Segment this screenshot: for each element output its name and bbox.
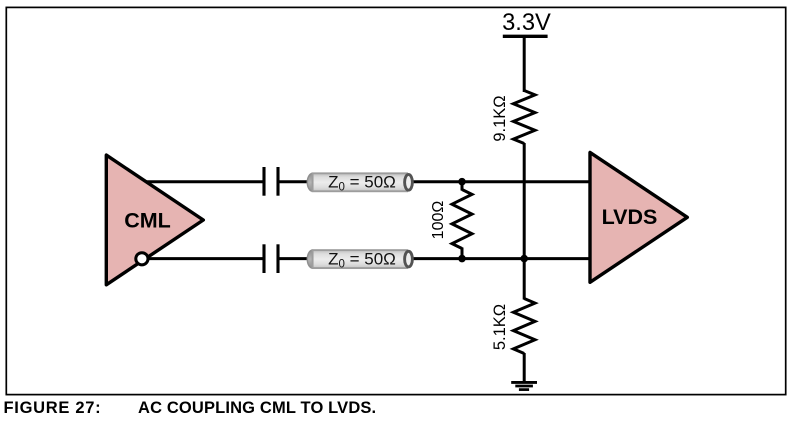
wire bottom line left segment bbox=[147, 257, 265, 260]
wire top line right segment bbox=[406, 180, 589, 183]
svg-text:LVDS: LVDS bbox=[602, 205, 658, 229]
svg-text:Z0 = 50Ω: Z0 = 50Ω bbox=[328, 173, 396, 194]
wire 9.1K resistor to bottom line junction bbox=[523, 143, 526, 300]
wire 3.3V rail to 9.1K resistor bbox=[523, 37, 526, 92]
transmission line TL2 Z0=50 ohm (bottom) bbox=[307, 249, 412, 270]
node junction: top line to 100 ohm bbox=[458, 178, 466, 186]
resistor 100Ω bbox=[430, 190, 472, 249]
svg-text:Z0 = 50Ω: Z0 = 50Ω bbox=[328, 249, 396, 270]
node junction: bottom line to 100 ohm bbox=[458, 255, 466, 263]
ground bbox=[511, 382, 537, 389]
svg-text:CML: CML bbox=[124, 209, 171, 233]
resistor 9.1KΩ bbox=[491, 91, 535, 144]
wire stub 100 ohm resistor to bottom line bbox=[461, 248, 464, 261]
svg-text:100Ω: 100Ω bbox=[430, 201, 447, 240]
inversion bubble on CML output bbox=[136, 253, 148, 265]
wire bottom line right segment bbox=[406, 257, 589, 260]
power 3.3V bbox=[502, 10, 551, 37]
wire top line left segment bbox=[146, 180, 265, 183]
wire top line middle segment bbox=[279, 180, 311, 183]
caption FIGURE 27 bbox=[4, 399, 377, 417]
svg-text:3.3V: 3.3V bbox=[502, 10, 551, 36]
svg-text:AC COUPLING CML TO LVDS.: AC COUPLING CML TO LVDS. bbox=[138, 399, 376, 417]
transmission line TL1 Z0=50 ohm (top) bbox=[307, 173, 412, 194]
svg-text:FIGURE 27:: FIGURE 27: bbox=[4, 399, 102, 417]
resistor 5.1KΩ bbox=[491, 299, 535, 354]
wire stub top line to 100 ohm resistor bbox=[461, 181, 464, 191]
driver U1 CML bbox=[106, 155, 203, 285]
receiver U2 LVDS bbox=[590, 152, 687, 282]
capacitor C2 (bottom AC coupling cap) bbox=[264, 244, 278, 273]
wire bottom line middle segment bbox=[279, 257, 311, 260]
svg-text:9.1KΩ: 9.1KΩ bbox=[491, 95, 509, 141]
svg-text:5.1KΩ: 5.1KΩ bbox=[491, 304, 509, 350]
wire 5.1K resistor to ground bbox=[523, 353, 526, 382]
capacitor C1 (top AC coupling cap) bbox=[264, 167, 278, 196]
node junction: bottom line to bias divider bbox=[520, 255, 528, 263]
